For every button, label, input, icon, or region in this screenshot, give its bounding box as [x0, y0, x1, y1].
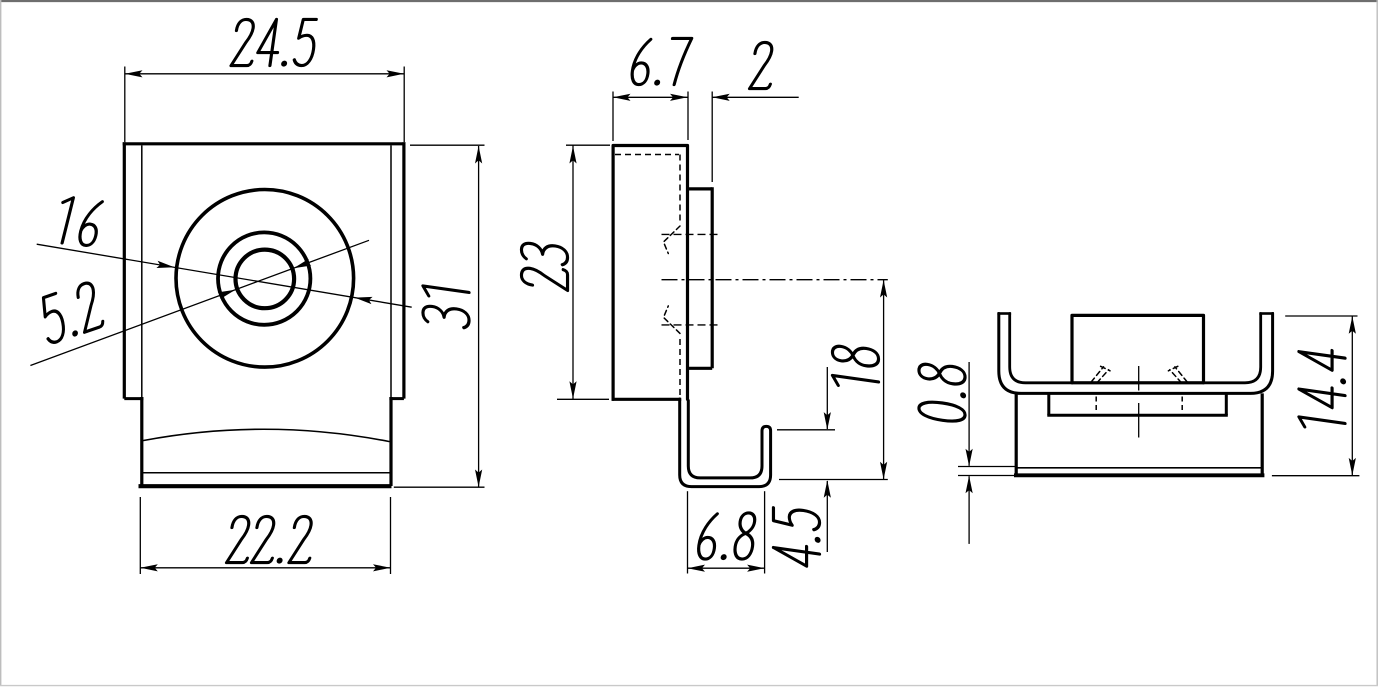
end view: centre tab seat edge: [1072, 381, 1204, 384]
label 5.2: [40, 280, 104, 345]
front view: left inner fold line: [141, 145, 143, 398]
dim 24.5 extension left: [124, 67, 126, 143]
dim 18 bottom reference line: [779, 479, 888, 481]
side view: lower lance level line: [662, 324, 721, 326]
dim 0.8 extension upper: [958, 466, 1016, 468]
dim 6.7 extension right: [687, 92, 689, 141]
front view: left outer edge (flange): [123, 142, 126, 398]
end view: left lip cap: [997, 312, 1011, 315]
dim 6.8 arrow right: [747, 565, 765, 572]
dim 23 line: [572, 146, 574, 400]
label 2: [750, 42, 777, 88]
end view: channel outer profile: [999, 314, 1273, 394]
end view: left lance (dashed): [1091, 366, 1110, 383]
label 16: [53, 197, 104, 246]
end view: right lance (dashed): [1168, 366, 1187, 383]
dim 14.4 extension bottom: [1272, 475, 1360, 477]
dim 6.7 line: [613, 96, 688, 98]
front view: middle circle: [218, 232, 310, 324]
front view: right inner fold line: [390, 145, 392, 398]
front view: inner hole dia 5.2: [235, 250, 294, 309]
dim 0.8 extension lower: [958, 475, 1014, 477]
dim 6.7 arrow left: [613, 94, 631, 101]
side view: upper lance level line: [662, 233, 721, 235]
end view: left lance hidden edge: [1095, 397, 1097, 412]
dim 4.5 arrow upper: [824, 412, 831, 430]
dim 2 tail line: [712, 96, 799, 98]
label 18: [832, 344, 878, 391]
front view: outer circle dia 16 boss: [176, 189, 354, 367]
dim 23 extension top: [566, 144, 610, 146]
dim 24.5 arrow right: [387, 70, 405, 77]
dim 4.5 lower line: [826, 481, 828, 552]
label 31: [423, 286, 469, 328]
page border bottom: [0, 685, 1378, 687]
side view: centre line: [662, 279, 888, 281]
dim 18 line: [883, 280, 885, 480]
side view: plate bottom edge: [612, 398, 682, 401]
dim 14.4 extension top: [1285, 315, 1357, 317]
dim 23 extension bottom: [557, 398, 609, 400]
dim 6.8 extension right: [764, 491, 766, 573]
side view: tab right edge: [711, 187, 714, 368]
dim 2 extension: [711, 92, 713, 183]
dim 22.2 extension right: [390, 497, 392, 574]
dim 14.4 arrow bottom: [1349, 458, 1356, 476]
dim 0.8 upper line: [968, 362, 970, 466]
dim 0.8 lower line: [968, 476, 970, 544]
dim 14.4 line: [1351, 316, 1353, 476]
front view: left flange step: [124, 397, 143, 400]
end view: channel inner profile: [1010, 314, 1261, 383]
dim 22.2 line: [140, 567, 390, 569]
dim 0.8 arrow lower: [966, 476, 973, 494]
side view: lower lance tab (dashed): [664, 306, 681, 334]
dim 24.5 extension right: [403, 67, 405, 143]
label 23: [521, 241, 567, 290]
dim 6.8 extension left: [687, 491, 689, 573]
end view: right lance hidden edge: [1181, 397, 1183, 412]
front view: bottom thick edge: [139, 484, 392, 488]
end view: body left edge: [1015, 393, 1018, 477]
dim 6.8 arrow left: [688, 565, 706, 572]
label 14.4: [1299, 346, 1346, 433]
leader line for dia 16: [37, 244, 412, 307]
end view: centre tab: [1072, 315, 1204, 382]
side view: hidden fold vertical upper (dashed): [679, 155, 681, 224]
dim 6.7 arrow right: [670, 94, 688, 101]
side view: J-hook profile: [680, 399, 771, 487]
side view: tab bottom edge: [688, 367, 713, 370]
dim 4.5 hook-tip reference line: [777, 429, 835, 431]
side view: hidden fold top (dashed): [615, 154, 679, 156]
front view: right flange step: [389, 397, 404, 400]
dim 14.4 arrow top: [1349, 316, 1356, 334]
end view: centre line upper: [1138, 366, 1140, 391]
dim 31 arrow top: [475, 146, 482, 164]
end view: thin fold line: [1016, 467, 1262, 469]
arrow dia16 left: [156, 261, 174, 268]
front view: curved spring arc: [144, 429, 390, 441]
side view: upper lance tab (dashed): [664, 226, 681, 254]
front view: left lower body edge: [140, 397, 143, 486]
side view: hidden fold vertical lower (dashed): [679, 339, 681, 398]
page border top: [0, 0, 1378, 2]
dim 6.7 extension left: [612, 92, 614, 142]
end view: body right edge: [1261, 393, 1264, 477]
end view: bottom thick edge: [1014, 473, 1264, 477]
dim 24.5 line: [125, 73, 404, 75]
page border left: [0, 0, 2, 686]
dim 22.2 arrow right: [373, 564, 391, 571]
end view: retainer right edge: [1225, 393, 1228, 415]
front view: right lower body edge: [389, 397, 392, 486]
front view: thin fold line above bottom: [141, 472, 390, 474]
side view: main plate outline: [613, 146, 687, 400]
dim 22.2 arrow left: [140, 564, 158, 571]
arrow dia16 right: [355, 297, 373, 304]
dim 6.8 line: [688, 567, 765, 569]
front view: top edge of clip plate: [123, 142, 406, 145]
dim 0.8 arrow upper: [966, 449, 973, 467]
dim 2 arrow: [712, 94, 730, 101]
dim 31 extension top: [410, 144, 485, 146]
front view: right outer edge (flange): [402, 142, 405, 398]
leader line for dia 5.2: [30, 240, 369, 365]
dim 22.2 extension left: [139, 497, 141, 574]
side view: tab top edge: [688, 187, 713, 190]
dim 31 arrow bottom: [475, 470, 482, 488]
dim 18 arrow bottom: [880, 462, 887, 480]
end view: retainer left edge: [1047, 393, 1050, 415]
label 22.2: [226, 516, 315, 563]
arrow dia5.2 upper-right: [294, 259, 312, 268]
label 4.5: [773, 506, 820, 568]
page border right: [1376, 0, 1378, 686]
label 6.8: [697, 513, 757, 560]
dim 23 arrow bottom: [569, 381, 576, 399]
dim 23 arrow top: [569, 146, 576, 164]
dim 24.5 arrow left: [125, 70, 143, 77]
dim 31 extension bottom: [394, 486, 485, 488]
dim 4.5 arrow lower: [824, 480, 831, 498]
label 6.7: [630, 38, 691, 85]
dim 18 arrow top: [880, 280, 887, 298]
dim 4.5 upper line: [826, 367, 828, 429]
end view: centre line lower: [1138, 403, 1140, 438]
arrow dia5.2 lower-left: [218, 290, 236, 299]
dim 31 line: [478, 146, 480, 487]
label 24.5: [231, 19, 318, 66]
label 0.8: [919, 362, 966, 424]
end view: right lip cap: [1259, 312, 1274, 315]
end view: retainer bottom edge: [1047, 414, 1228, 417]
